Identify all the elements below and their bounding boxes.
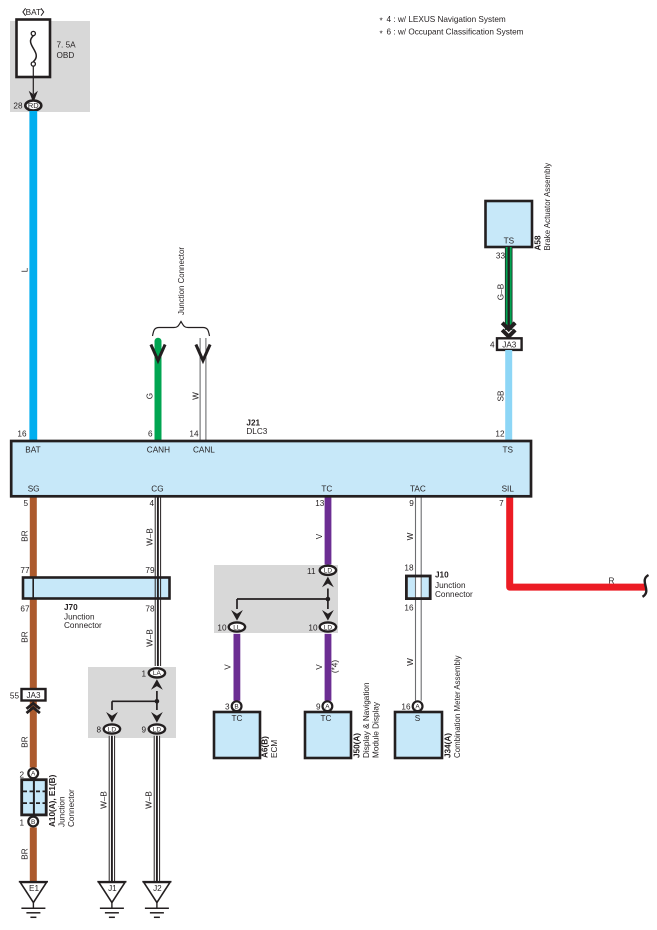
svg-text:LD: LD — [324, 568, 333, 575]
svg-text:TS: TS — [503, 445, 514, 454]
svg-text:Combination Meter Assembly: Combination Meter Assembly — [453, 655, 462, 758]
svg-text:11: 11 — [307, 567, 316, 576]
svg-text:Module Display: Module Display — [372, 701, 381, 758]
svg-text:J34(A): J34(A) — [444, 733, 453, 758]
svg-text:14: 14 — [189, 430, 199, 439]
svg-text:A: A — [325, 704, 330, 711]
svg-text:BR: BR — [21, 736, 30, 747]
svg-text:TS: TS — [504, 237, 515, 246]
svg-text:67: 67 — [20, 604, 30, 613]
svg-text:RD: RD — [28, 101, 39, 110]
svg-text:DLC3: DLC3 — [246, 427, 267, 436]
svg-text:CG: CG — [151, 485, 163, 494]
svg-text:33: 33 — [496, 252, 506, 261]
svg-text:LA: LA — [153, 670, 162, 677]
svg-text:7. 5A: 7. 5A — [57, 41, 77, 50]
svg-text:Brake Actuator Assembly: Brake Actuator Assembly — [543, 163, 552, 251]
svg-text:4 : w/ LEXUS Navigation System: 4 : w/ LEXUS Navigation System — [387, 15, 506, 24]
svg-text:E1: E1 — [29, 884, 39, 893]
svg-text:R: R — [609, 577, 615, 586]
svg-text:BR: BR — [21, 848, 30, 859]
svg-text:J70: J70 — [64, 603, 78, 612]
svg-text:4: 4 — [149, 499, 154, 508]
svg-text:V: V — [315, 533, 324, 539]
svg-text:79: 79 — [145, 566, 155, 575]
svg-text:SIL: SIL — [502, 485, 515, 494]
svg-text:TC: TC — [232, 714, 243, 723]
svg-text:W: W — [192, 392, 201, 400]
svg-text:18: 18 — [404, 564, 414, 573]
svg-text:TC: TC — [321, 485, 332, 494]
svg-text:28: 28 — [13, 102, 23, 111]
svg-text:3: 3 — [225, 703, 230, 712]
svg-text:W: W — [406, 658, 415, 666]
svg-text:V: V — [315, 664, 324, 670]
svg-text:6 : w/ Occupant Classification: 6 : w/ Occupant Classification System — [387, 28, 524, 37]
svg-text:7: 7 — [499, 499, 504, 508]
svg-text:55: 55 — [10, 692, 20, 701]
svg-text:16: 16 — [17, 430, 27, 439]
svg-text:JA3: JA3 — [26, 691, 41, 700]
svg-text:B: B — [31, 819, 35, 826]
svg-text:SB: SB — [497, 390, 506, 401]
svg-text:A6(B): A6(B) — [261, 736, 270, 758]
svg-text:10: 10 — [217, 624, 227, 633]
svg-text:Junction: Junction — [58, 796, 67, 827]
svg-text:A: A — [31, 771, 36, 778]
svg-text:Connector: Connector — [64, 621, 102, 630]
svg-text:LD: LD — [324, 624, 333, 631]
svg-text:78: 78 — [145, 604, 155, 613]
svg-text:(*4): (*4) — [331, 660, 340, 673]
svg-text:9: 9 — [141, 726, 146, 735]
svg-text:OBD: OBD — [57, 51, 75, 60]
svg-text:G: G — [146, 393, 155, 399]
svg-text:Connector: Connector — [67, 789, 76, 827]
svg-text:ECM: ECM — [270, 740, 279, 758]
svg-text:10: 10 — [308, 624, 318, 633]
svg-text:Display & Navigation: Display & Navigation — [362, 682, 371, 758]
svg-text:8: 8 — [96, 726, 101, 735]
svg-text:4: 4 — [490, 341, 495, 350]
svg-text:J50(A): J50(A) — [353, 733, 362, 758]
svg-text:BAT: BAT — [26, 8, 41, 17]
svg-text:B: B — [234, 704, 238, 711]
svg-text:J10: J10 — [435, 571, 449, 580]
svg-text:V: V — [224, 664, 233, 670]
svg-text:BR: BR — [21, 631, 30, 642]
svg-text:L: L — [21, 267, 30, 272]
svg-text:A: A — [415, 704, 420, 711]
svg-text:BR: BR — [21, 530, 30, 541]
svg-text:13: 13 — [315, 499, 325, 508]
svg-text:1: 1 — [19, 819, 24, 828]
svg-text:W–B: W–B — [146, 528, 155, 546]
svg-text:S: S — [415, 714, 421, 723]
svg-text:TC: TC — [321, 714, 332, 723]
svg-text:9: 9 — [409, 499, 414, 508]
svg-text:J2: J2 — [153, 884, 162, 893]
svg-text:16: 16 — [401, 703, 411, 712]
svg-text:2: 2 — [19, 770, 24, 779]
svg-text:W–B: W–B — [146, 629, 155, 647]
svg-text:12: 12 — [495, 430, 505, 439]
svg-text:A58: A58 — [534, 235, 543, 250]
svg-text:LD: LD — [153, 726, 162, 733]
svg-text:JA3: JA3 — [502, 340, 517, 349]
svg-text:9: 9 — [316, 703, 321, 712]
svg-text:J1: J1 — [108, 884, 117, 893]
svg-text:5: 5 — [23, 499, 28, 508]
svg-text:CANL: CANL — [193, 445, 215, 454]
svg-text:77: 77 — [20, 566, 30, 575]
svg-text:BAT: BAT — [25, 445, 40, 454]
svg-text:Junction Connector: Junction Connector — [177, 247, 186, 315]
svg-text:G–B: G–B — [497, 283, 506, 300]
svg-text:W–B: W–B — [100, 791, 109, 809]
svg-text:Connector: Connector — [435, 590, 473, 599]
svg-text:CANH: CANH — [147, 445, 170, 454]
svg-text:Junction: Junction — [64, 612, 95, 621]
svg-text:6: 6 — [148, 430, 153, 439]
svg-text:SG: SG — [28, 485, 40, 494]
svg-text:1: 1 — [141, 670, 146, 679]
svg-text:A10(A), E1(B): A10(A), E1(B) — [48, 774, 57, 827]
svg-text:TAC: TAC — [410, 485, 426, 494]
svg-text:LD: LD — [108, 726, 117, 733]
svg-text:16: 16 — [404, 603, 414, 612]
svg-text:J21: J21 — [246, 418, 260, 427]
svg-text:LL: LL — [233, 624, 241, 631]
svg-text:W: W — [406, 532, 415, 540]
svg-text:W–B: W–B — [145, 791, 154, 809]
